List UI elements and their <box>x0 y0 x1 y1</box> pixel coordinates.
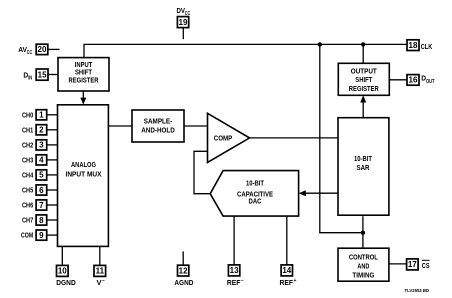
svg-text:CAPACITIVE: CAPACITIVE <box>237 191 273 198</box>
svg-text:16: 16 <box>409 76 418 85</box>
svg-text:10-BIT: 10-BIT <box>246 181 265 188</box>
svg-text:+: + <box>294 278 297 284</box>
svg-text:INPUT: INPUT <box>75 62 93 69</box>
svg-text:CH3: CH3 <box>22 157 33 164</box>
svg-text:10: 10 <box>58 267 67 276</box>
svg-text:COM: COM <box>21 233 33 240</box>
svg-text:−: − <box>241 278 244 284</box>
svg-text:6: 6 <box>39 186 44 195</box>
svg-text:CLK: CLK <box>421 44 432 51</box>
svg-text:CC: CC <box>27 50 33 56</box>
svg-text:COMP: COMP <box>214 136 233 143</box>
svg-text:3: 3 <box>39 141 44 150</box>
svg-text:SAMPLE-: SAMPLE- <box>144 119 173 126</box>
svg-text:CONTROL: CONTROL <box>349 254 379 261</box>
svg-text:CH7: CH7 <box>22 218 33 225</box>
svg-text:−: − <box>102 278 105 284</box>
svg-text:15: 15 <box>38 70 47 79</box>
svg-text:AND-HOLD: AND-HOLD <box>141 128 175 135</box>
svg-text:CH6: CH6 <box>22 203 33 210</box>
svg-text:AGND: AGND <box>174 280 193 287</box>
svg-text:5: 5 <box>39 171 44 180</box>
svg-text:17: 17 <box>408 260 417 269</box>
svg-text:11: 11 <box>96 267 105 276</box>
svg-text:CH5: CH5 <box>22 188 33 195</box>
svg-text:CH4: CH4 <box>22 172 33 179</box>
svg-text:REGISTER: REGISTER <box>69 77 99 84</box>
svg-text:ANALOG: ANALOG <box>71 162 96 169</box>
svg-text:TLV2553 BD: TLV2553 BD <box>405 288 430 294</box>
svg-text:12: 12 <box>179 266 188 275</box>
svg-text:9: 9 <box>39 231 44 240</box>
svg-text:REF: REF <box>280 280 294 287</box>
svg-text:IN: IN <box>28 76 32 82</box>
svg-text:REF: REF <box>227 280 241 287</box>
svg-text:CC: CC <box>185 11 191 17</box>
svg-text:REGISTER: REGISTER <box>349 86 379 93</box>
svg-text:CH0: CH0 <box>22 112 33 119</box>
svg-text:CS: CS <box>422 263 430 270</box>
svg-text:TIMING: TIMING <box>352 273 374 280</box>
svg-text:10-BIT: 10-BIT <box>354 156 373 163</box>
svg-text:18: 18 <box>409 41 418 50</box>
svg-text:OUTPUT: OUTPUT <box>351 69 378 76</box>
svg-text:4: 4 <box>39 156 44 165</box>
svg-text:INPUT MUX: INPUT MUX <box>66 171 102 178</box>
svg-text:OUT: OUT <box>426 79 435 85</box>
svg-text:1: 1 <box>39 111 44 120</box>
svg-text:7: 7 <box>39 201 44 210</box>
svg-text:DAC: DAC <box>249 199 262 206</box>
svg-text:CH1: CH1 <box>22 127 33 134</box>
svg-text:SHIFT: SHIFT <box>355 77 373 84</box>
svg-text:DGND: DGND <box>56 280 76 287</box>
svg-text:14: 14 <box>282 266 291 275</box>
svg-text:AND: AND <box>357 264 369 271</box>
svg-text:CH2: CH2 <box>22 142 33 149</box>
svg-text:13: 13 <box>230 266 239 275</box>
svg-text:8: 8 <box>39 216 44 225</box>
svg-text:2: 2 <box>39 126 44 135</box>
svg-text:SHIFT: SHIFT <box>75 70 93 77</box>
svg-text:19: 19 <box>179 18 188 27</box>
svg-text:SAR: SAR <box>357 165 370 172</box>
svg-text:20: 20 <box>38 45 47 54</box>
